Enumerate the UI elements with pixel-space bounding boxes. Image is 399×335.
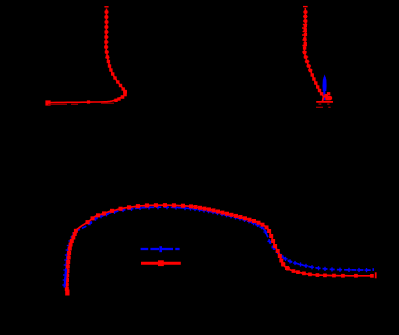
top-right bottom horizontal segment (316, 101, 333, 103)
bottom red end caps (375, 272, 377, 278)
bottom blue end tick (372, 268, 374, 271)
top-right bottom red mass (325, 96, 332, 100)
top-right blue lower bulge (323, 96, 326, 99)
legend blue plus marker (159, 246, 162, 252)
top-right error bar caps (302, 7, 312, 70)
top-left error bar caps (104, 7, 109, 58)
bottom red solid curve (67, 205, 373, 293)
top-right bottom cap dashes (dark red) (316, 104, 331, 107)
bottom red start marker blob (65, 290, 69, 296)
top-left lower cap dashes (dark red) (48, 103, 114, 104)
bottom blue plus markers (62, 205, 368, 287)
bottom blue dashed curve (65, 207, 374, 287)
legend blue dashed sample line (141, 248, 180, 250)
legend red solid sample line (141, 262, 181, 265)
bottom blue start solid segment (65, 269, 67, 288)
top-right red errorbar curve (304, 8, 328, 96)
top-right blue marker bulge (323, 74, 327, 91)
top-right red square markers (303, 10, 330, 97)
top-left red errorbar curve (47, 9, 126, 103)
top-left red square markers (45, 10, 127, 105)
top-right blue curve (323, 77, 326, 100)
legend red square marker (158, 260, 164, 266)
bottom red square markers (65, 203, 374, 291)
top-right bottom connector (323, 97, 324, 102)
